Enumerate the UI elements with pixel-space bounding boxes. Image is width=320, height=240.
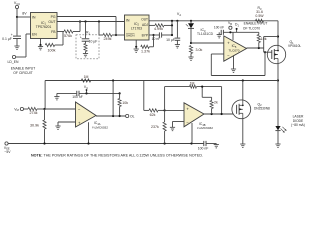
svg-text:OUT: OUT <box>141 18 148 22</box>
node D1 point <box>236 29 238 32</box>
svg-text:EN: EN <box>32 33 37 37</box>
node output 1M riser <box>221 113 223 115</box>
wire Q1 drain to laser node <box>277 64 279 81</box>
svg-text:FB: FB <box>51 30 56 34</box>
wire feedback line A <box>45 80 278 82</box>
ground below IC1 <box>40 45 42 47</box>
node BYP line junction <box>152 34 154 36</box>
svg-text:249k: 249k <box>104 37 112 41</box>
svg-text:LD_EN: LD_EN <box>8 60 19 64</box>
svg-text:237k: 237k <box>151 125 159 129</box>
svg-text:OF CIRCUIT: OF CIRCUIT <box>13 71 32 75</box>
wire 10nF to shared riser <box>162 34 172 36</box>
wire IC1 PG line <box>57 16 116 18</box>
resistor 100k <box>45 43 55 46</box>
node VCC terminal <box>15 5 18 8</box>
node LD_EN terminal <box>12 55 15 58</box>
wire output riser to line A <box>112 81 114 117</box>
capacitor 10uF in dashed box <box>82 38 90 40</box>
node TL1431 ref <box>190 42 192 44</box>
svg-text:100 nF: 100 nF <box>198 147 209 151</box>
ground for line B 100nF <box>56 93 58 96</box>
svg-text:8V: 8V <box>22 12 27 16</box>
node PG to SHDN <box>115 34 117 36</box>
svg-text:TPS76201: TPS76201 <box>36 25 52 29</box>
svg-text:ADJ: ADJ <box>142 23 148 27</box>
op-amp IC5 TLC070 <box>224 36 247 61</box>
svg-text:OF TLC070: OF TLC070 <box>243 27 260 31</box>
wire OUT down into dashed box <box>85 22 87 39</box>
capacitor 100nF enable <box>220 30 222 35</box>
node OUT x99 <box>98 20 100 22</box>
svg-text:0.5W: 0.5W <box>255 14 264 18</box>
svg-text:100k: 100k <box>48 49 56 53</box>
svg-text:IN: IN <box>32 15 36 19</box>
ground for enable 100nF <box>217 34 222 36</box>
wire line A to 62k <box>143 81 145 111</box>
svg-text:1M: 1M <box>84 75 89 79</box>
resistor R1 in dashed box <box>85 41 87 43</box>
ground in dashed box <box>85 52 87 54</box>
svg-text:¼LMC6032: ¼LMC6032 <box>92 125 108 129</box>
node VC stub <box>85 92 87 94</box>
ground below 3.0k <box>190 54 192 58</box>
node VCC junction <box>16 16 18 18</box>
svg-text:0.1 µF: 0.1 µF <box>2 37 12 41</box>
wire Q2 drain to line A <box>242 81 244 101</box>
wire IC4A V- pin <box>88 122 90 143</box>
wire IC5 gnd pin <box>233 56 235 69</box>
wire Q2 source to ground <box>242 119 244 145</box>
svg-text:TL1431CD: TL1431CD <box>197 32 214 36</box>
wire IC2 ADJ line <box>149 24 155 26</box>
node Q1 source sense <box>277 35 279 37</box>
svg-text:DN2530N8: DN2530N8 <box>254 106 270 110</box>
wire node up to 1M line <box>164 87 166 111</box>
node at OUT line x80 <box>79 20 81 22</box>
wire sense line <box>264 36 278 38</box>
capacitor 10nF <box>158 32 160 37</box>
laser diode <box>277 81 279 127</box>
node output 10k <box>258 47 260 49</box>
svg-text:DIODE: DIODE <box>293 119 304 123</box>
svg-text:ENABLE INPUT: ENABLE INPUT <box>11 67 36 71</box>
wire IC2 GND down <box>135 40 137 47</box>
resistor 274k <box>28 107 37 110</box>
resistor 10k gate pullup <box>258 32 260 34</box>
wire 62k to node <box>158 109 165 111</box>
node VM terminal <box>20 107 23 110</box>
node line A Q2 drain <box>242 79 244 81</box>
resistor 1M IC4B feedback <box>190 85 197 88</box>
node gate feedback <box>264 51 266 53</box>
svg-text:4.99k: 4.99k <box>154 27 163 31</box>
wire VCC down to node <box>16 9 18 17</box>
wire IC1 OUT line <box>57 21 125 23</box>
resistor 1.37k <box>141 45 150 48</box>
wire 1.37k up to BYP line <box>149 46 153 48</box>
svg-text:LASER: LASER <box>293 114 304 118</box>
resistor 249k <box>103 33 112 36</box>
regulator IC2 LT1763 box <box>125 15 150 40</box>
wire OUT to 249k <box>98 22 100 36</box>
wire 100k to FB <box>55 44 63 46</box>
svg-text:10 µF: 10 µF <box>89 39 98 43</box>
node line B 10k <box>119 92 121 94</box>
wire node to IC4A -input <box>45 108 76 110</box>
node rail IC4A <box>87 142 89 144</box>
wire VA rail <box>149 20 278 22</box>
svg-text:−5V: −5V <box>4 150 11 154</box>
node rail IC4B <box>190 142 192 144</box>
wire IC4A output <box>96 115 126 117</box>
svg-text:1M: 1M <box>190 81 195 85</box>
svg-text:100 nF: 100 nF <box>72 95 83 99</box>
laser arrows <box>281 129 285 133</box>
resistor R3 31.6 current sense <box>256 19 264 22</box>
wire 4.99k to VA rail riser <box>164 24 172 26</box>
wire IC4B output to Q2 gate <box>204 113 237 115</box>
wire VCC to IC1 IN <box>17 16 31 18</box>
node VM divider <box>43 108 45 110</box>
node rail 30.9k <box>43 142 45 144</box>
wire VEE rail <box>7 143 204 145</box>
node output 2k <box>211 113 213 115</box>
svg-text:(~80 mA): (~80 mA) <box>291 123 305 127</box>
wire 249k to IC2 SHDN <box>112 34 125 36</box>
transistor Q2 DN2530N8 <box>232 100 251 119</box>
wire IC4B -input to ground <box>173 121 185 123</box>
wire line B <box>79 92 119 94</box>
wire LD_EN to EN pin <box>16 56 26 58</box>
wire 30.9k to VEE rail <box>44 129 46 144</box>
wire line A riser to VM node <box>44 81 46 110</box>
node OL terminal <box>126 114 129 117</box>
svg-text:NOTE: THE POWER RATINGS OF THE: NOTE: THE POWER RATINGS OF THE RESISTORS… <box>31 154 203 158</box>
resistor 237k <box>163 122 166 131</box>
wire 274k to node <box>37 108 45 110</box>
dashed box R1 filter <box>76 35 99 59</box>
capacitor 10uF at VA rail <box>176 21 178 38</box>
svg-text:ENABLE INPUT: ENABLE INPUT <box>244 21 268 25</box>
svg-text:10k: 10k <box>122 101 128 105</box>
node IC1 gnd junction <box>39 44 41 46</box>
resistor 2k <box>210 101 213 109</box>
wire node to IC4B +input <box>165 109 184 111</box>
wire IC4B V- pin <box>191 123 193 144</box>
wire 1M to output riser <box>197 86 222 88</box>
svg-text:+: + <box>80 36 82 40</box>
node 10nF riser <box>171 34 173 36</box>
node rail 237k <box>164 142 166 144</box>
svg-text:1.37k: 1.37k <box>141 49 150 53</box>
resistor 30.9k <box>44 109 46 120</box>
shunt reference IC3 TL1431 symbol <box>190 21 192 24</box>
resistor 10k monitor <box>118 99 121 107</box>
capacitor 100nF rail <box>203 141 205 146</box>
regulator IC1 TPS76201 box <box>31 13 58 39</box>
svg-text:VP0610L: VP0610L <box>288 44 301 48</box>
svg-text:BYP: BYP <box>142 33 148 37</box>
svg-text:100 nF: 100 nF <box>214 25 224 29</box>
wire IC4A +input to ground <box>58 121 76 123</box>
node VB terminal <box>229 31 231 33</box>
node drain laser junction <box>277 79 279 81</box>
wire rail corner down to Q1 <box>277 21 279 46</box>
wire ref to IC5 +input <box>191 42 224 44</box>
svg-text:OUT: OUT <box>48 20 55 24</box>
wire VM to 274k <box>24 108 29 110</box>
svg-text:SHDN: SHDN <box>126 33 135 37</box>
wire BYP 10nF line <box>149 34 159 36</box>
wire C1 to ground <box>16 39 18 47</box>
node 2k top <box>201 86 203 88</box>
node IC2 gnd <box>135 46 137 48</box>
capacitor 100nF IC4A <box>76 91 78 96</box>
svg-text:274k: 274k <box>30 111 38 115</box>
wire VCC node down to C1 <box>16 17 18 36</box>
resistor 1M IC4A feedback <box>81 79 91 82</box>
wire IC5 -input feedback loop <box>211 53 224 55</box>
svg-text:30.9k: 30.9k <box>30 123 39 127</box>
op-amp IC4B quarter LMC6032 <box>184 103 204 127</box>
node output riser junction <box>112 115 114 117</box>
svg-text:TLC070: TLC070 <box>228 48 239 52</box>
svg-text:¼LMC6032: ¼LMC6032 <box>197 126 213 130</box>
svg-text:576k: 576k <box>64 34 72 38</box>
svg-text:OL: OL <box>130 114 135 118</box>
wire IC1 GND down <box>40 39 42 46</box>
svg-text:LT1763: LT1763 <box>131 26 142 30</box>
wire 576k to OUT line <box>73 31 80 33</box>
svg-text:PG: PG <box>51 15 56 19</box>
node VEE terminal <box>5 142 8 145</box>
transistor Q1 VP0610L <box>267 45 285 63</box>
resistor 4.99k <box>155 24 164 27</box>
node IC4B +input <box>164 109 166 111</box>
ground at rail end <box>206 143 216 145</box>
node ADJ riser <box>171 24 173 26</box>
capacitor 0.1uF <box>13 35 21 37</box>
svg-text:10 µF: 10 µF <box>166 38 175 42</box>
node OUT x85.5 <box>84 20 86 22</box>
ground below IC2 <box>135 47 137 49</box>
svg-text:10 nF: 10 nF <box>152 37 161 41</box>
svg-text:2k: 2k <box>214 100 218 104</box>
node 10k output <box>119 115 121 117</box>
wire Q1 gate <box>267 51 272 53</box>
resistor 62k <box>149 109 158 112</box>
node line A output riser <box>112 79 114 81</box>
wire IC5 output to gate <box>247 47 264 49</box>
resistor 3.0k <box>189 46 192 54</box>
wire line B left <box>57 92 77 94</box>
wire IC5 enable pin <box>232 32 234 40</box>
wire enable line <box>223 31 258 33</box>
ground below C1 <box>14 45 19 47</box>
op-amp IC4A quarter LMC6032 <box>76 102 97 127</box>
svg-text:3.0k: 3.0k <box>196 48 203 52</box>
resistor 576k <box>64 30 73 33</box>
svg-text:IN: IN <box>126 18 130 22</box>
svg-text:62k: 62k <box>150 113 156 117</box>
